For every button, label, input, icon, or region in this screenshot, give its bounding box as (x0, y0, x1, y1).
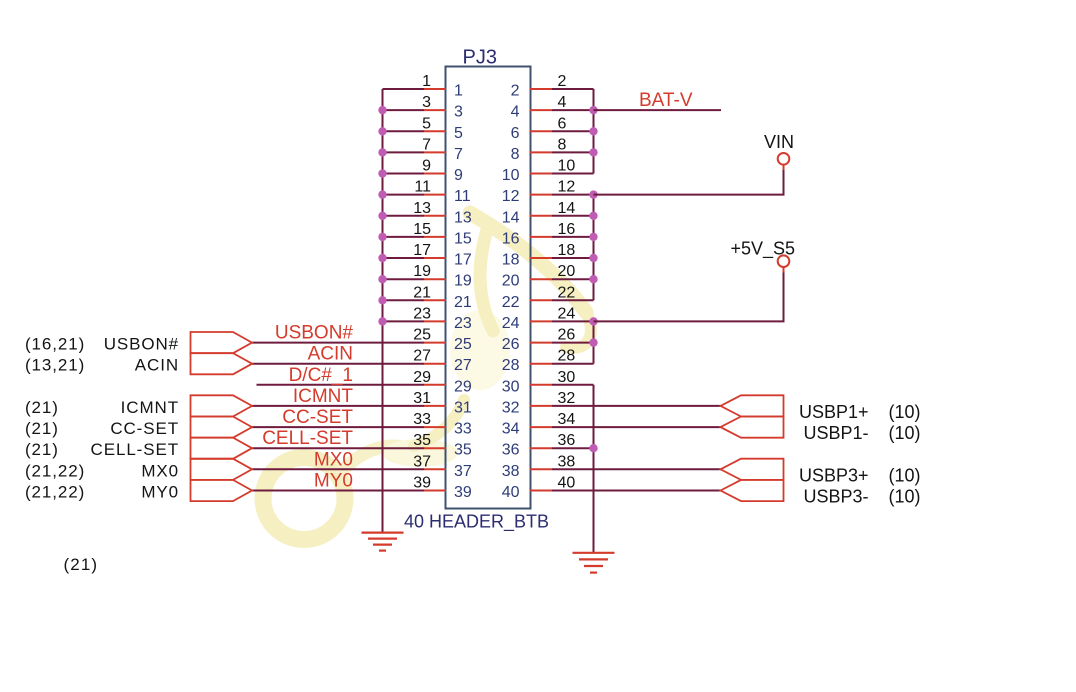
wire right bus GND segment (593, 385, 595, 553)
svg-text:34: 34 (502, 421, 520, 438)
svg-text:VIN: VIN (764, 132, 794, 152)
svg-text:PJ3: PJ3 (463, 47, 497, 69)
svg-text:(21): (21) (25, 440, 59, 459)
svg-text:40: 40 (502, 484, 520, 501)
svg-text:30: 30 (502, 378, 520, 395)
junction at pin 26 (589, 338, 597, 346)
svg-text:1: 1 (422, 73, 431, 90)
svg-text:ICMNT: ICMNT (293, 386, 354, 407)
pin 13 of PJ3 (413, 200, 472, 227)
pin 24 of PJ3 (502, 305, 576, 332)
pin 26 of PJ3 (502, 327, 576, 354)
pin 22 of PJ3 (502, 284, 576, 311)
svg-text:31: 31 (413, 390, 431, 407)
svg-text:32: 32 (502, 399, 520, 416)
svg-text:14: 14 (502, 209, 520, 226)
junction at pin 12 (589, 190, 597, 198)
svg-text:9: 9 (454, 167, 463, 184)
off-page connector USBP1+ (721, 395, 784, 416)
wire net BAT-V (594, 109, 722, 111)
pin 29 of PJ3 (413, 369, 472, 396)
pin 14 of PJ3 (502, 200, 576, 227)
off-page connector MY0 (191, 480, 253, 501)
pin 17 of PJ3 (413, 242, 472, 269)
junction at pin 3 (378, 106, 386, 114)
wire pin 38 to USB port (552, 468, 721, 470)
svg-text:2: 2 (558, 73, 567, 90)
wire pin 17 to GND bus (383, 257, 425, 259)
svg-text:25: 25 (454, 336, 472, 353)
wire pin 23 to GND bus (383, 320, 425, 322)
svg-text:13: 13 (454, 209, 472, 226)
pin 32 of PJ3 (502, 390, 576, 417)
svg-text:33: 33 (413, 411, 431, 428)
svg-text:40 HEADER_BTB: 40 HEADER_BTB (404, 512, 549, 533)
wire pin 40 to USB port (552, 490, 721, 492)
wire pin 15 to GND bus (383, 236, 425, 238)
wire pin 32 to USB port (552, 405, 721, 407)
wire pin 3 to GND bus (383, 109, 425, 111)
pin 10 of PJ3 (502, 158, 576, 185)
wire pin 7 to GND bus (383, 151, 425, 153)
pin 25 of PJ3 (413, 327, 472, 354)
pin 35 of PJ3 (413, 432, 472, 459)
svg-text:36: 36 (502, 442, 520, 459)
svg-text:CC-SET: CC-SET (282, 407, 353, 428)
wire pin 1 to GND bus (383, 88, 425, 90)
svg-text:36: 36 (558, 432, 576, 449)
svg-text:3: 3 (454, 104, 463, 121)
wire pin 22 to right bus (552, 299, 594, 301)
svg-text:38: 38 (502, 463, 520, 480)
svg-text:MX0: MX0 (314, 449, 353, 470)
wire net MY0 (252, 490, 424, 492)
wire pin 14 to right bus (552, 215, 594, 217)
wire right bus BAT-V segment (593, 89, 595, 174)
wire pin 13 to GND bus (383, 215, 425, 217)
svg-text:4: 4 (511, 104, 520, 121)
pin 3 of PJ3 (422, 94, 463, 121)
pin 12 of PJ3 (502, 179, 576, 206)
svg-text:18: 18 (558, 242, 576, 259)
svg-text:27: 27 (413, 348, 431, 365)
pin 40 of PJ3 (502, 475, 576, 502)
svg-text:9: 9 (422, 158, 431, 175)
junction at pin 16 (589, 233, 597, 241)
svg-text:ACIN: ACIN (135, 356, 179, 375)
svg-text:ACIN: ACIN (308, 344, 353, 365)
off-page connector USBP1- (721, 417, 784, 438)
svg-text:25: 25 (413, 327, 431, 344)
svg-text:14: 14 (558, 200, 576, 217)
wire net USBON# (252, 342, 424, 344)
pin 28 of PJ3 (502, 348, 576, 375)
svg-text:22: 22 (558, 284, 576, 301)
svg-text:MX0: MX0 (141, 461, 179, 480)
svg-text:13: 13 (413, 200, 431, 217)
junction at pin 6 (589, 127, 597, 135)
svg-text:MY0: MY0 (314, 471, 353, 492)
svg-text:24: 24 (502, 315, 520, 332)
svg-text:21: 21 (454, 294, 472, 311)
junction at pin 5 (378, 127, 386, 135)
junction at pin 23 (378, 317, 386, 325)
svg-text:CELL-SET: CELL-SET (91, 440, 179, 459)
wire pin 24 to right bus (552, 320, 594, 322)
svg-text:(10): (10) (889, 465, 921, 485)
wire net +5V_S5 (594, 273, 784, 322)
wire pin 28 to right bus (552, 363, 594, 365)
svg-text:39: 39 (454, 484, 472, 501)
junction at pin 18 (589, 254, 597, 262)
wire pin 16 to right bus (552, 236, 594, 238)
pin 15 of PJ3 (413, 221, 472, 248)
svg-text:7: 7 (422, 136, 431, 153)
svg-text:29: 29 (454, 378, 472, 395)
svg-text:5: 5 (422, 115, 431, 132)
svg-text:3: 3 (422, 94, 431, 111)
svg-text:29: 29 (413, 369, 431, 386)
svg-text:26: 26 (502, 336, 520, 353)
pin 7 of PJ3 (422, 136, 463, 163)
svg-text:10: 10 (502, 167, 520, 184)
svg-text:(10): (10) (889, 402, 921, 422)
pin 16 of PJ3 (502, 221, 576, 248)
junction at pin 20 (589, 275, 597, 283)
wire pin 4 to right bus (552, 109, 594, 111)
svg-text:17: 17 (413, 242, 431, 259)
svg-text:(21): (21) (25, 398, 59, 417)
pin 36 of PJ3 (502, 432, 576, 459)
pin 5 of PJ3 (422, 115, 463, 142)
svg-text:37: 37 (413, 453, 431, 470)
svg-text:26: 26 (558, 327, 576, 344)
svg-text:16: 16 (558, 221, 576, 238)
svg-text:12: 12 (502, 188, 520, 205)
svg-text:19: 19 (413, 263, 431, 280)
wire pin 21 to GND bus (383, 299, 425, 301)
svg-text:(21): (21) (25, 419, 59, 438)
wire net D/C#_1 (257, 384, 425, 386)
svg-text:8: 8 (511, 146, 520, 163)
pin 31 of PJ3 (413, 390, 472, 417)
pin 20 of PJ3 (502, 263, 576, 290)
svg-text:33: 33 (454, 421, 472, 438)
svg-text:CC-SET: CC-SET (110, 419, 179, 438)
svg-text:32: 32 (558, 390, 576, 407)
svg-text:1: 1 (454, 83, 463, 100)
wire net CELL-SET (252, 447, 424, 449)
pin 9 of PJ3 (422, 158, 463, 185)
wire pin 30 to right bus (552, 384, 594, 386)
wire pin 20 to right bus (552, 278, 594, 280)
wire pin 9 to GND bus (383, 173, 425, 175)
svg-text:6: 6 (511, 125, 520, 142)
wire pin 19 to GND bus (383, 278, 425, 280)
off-page connector USBON# (191, 332, 253, 353)
svg-text:7: 7 (454, 146, 463, 163)
svg-text:30: 30 (558, 369, 576, 386)
pin 4 of PJ3 (511, 94, 567, 121)
wire pin 26 to right bus (552, 342, 594, 344)
wire left GND bus (382, 89, 384, 533)
wire net ICMNT (252, 405, 424, 407)
svg-text:MY0: MY0 (141, 483, 179, 502)
ground right (573, 553, 615, 573)
pin 30 of PJ3 (502, 369, 576, 396)
svg-text:ICMNT: ICMNT (121, 398, 179, 417)
svg-text:16: 16 (502, 230, 520, 247)
pin 8 of PJ3 (511, 136, 567, 163)
svg-text:6: 6 (558, 115, 567, 132)
svg-text:37: 37 (454, 463, 472, 480)
svg-text:USBON#: USBON# (275, 323, 354, 344)
wire net MX0 (252, 468, 424, 470)
junction at pin 9 (378, 169, 386, 177)
junction at pin 15 (378, 233, 386, 241)
svg-text:20: 20 (502, 273, 520, 290)
junction at pin 14 (589, 212, 597, 220)
junction at pin 7 (378, 148, 386, 156)
off-page connector CC-SET (191, 417, 253, 438)
svg-text:24: 24 (558, 305, 576, 322)
wire pin 18 to right bus (552, 257, 594, 259)
svg-text:(10): (10) (889, 423, 921, 443)
wire net ACIN (252, 363, 424, 365)
junction at pin 19 (378, 275, 386, 283)
svg-text:34: 34 (558, 411, 576, 428)
svg-text:40: 40 (558, 475, 576, 492)
wire pin 2 to right bus (552, 88, 594, 90)
wire pin 12 to right bus (552, 194, 594, 196)
junction at pin 13 (378, 212, 386, 220)
svg-text:4: 4 (558, 94, 567, 111)
svg-text:17: 17 (454, 252, 472, 269)
off-page connector MX0 (191, 459, 253, 480)
off-page connector ACIN (191, 353, 253, 374)
svg-text:39: 39 (413, 475, 431, 492)
svg-text:35: 35 (413, 432, 431, 449)
svg-text:(10): (10) (889, 487, 921, 507)
svg-text:22: 22 (502, 294, 520, 311)
svg-text:USBP1-: USBP1- (803, 423, 868, 443)
power terminal VIN (764, 132, 794, 170)
power terminal +5V_S5 (730, 239, 795, 273)
wire pin 6 to right bus (552, 130, 594, 132)
junction at pin 4 (589, 106, 597, 114)
svg-text:35: 35 (454, 442, 472, 459)
wire net VIN (594, 170, 784, 195)
off-page connector USBP3- (721, 480, 784, 501)
svg-text:2: 2 (511, 83, 520, 100)
svg-text:15: 15 (413, 221, 431, 238)
pin 18 of PJ3 (502, 242, 576, 269)
pin 1 of PJ3 (422, 73, 463, 100)
pin 11 of PJ3 (414, 179, 470, 206)
svg-text:BAT-V: BAT-V (639, 90, 693, 111)
wire right bus VIN segment (593, 195, 595, 301)
svg-text:28: 28 (558, 348, 576, 365)
junction at pin 36 (589, 444, 597, 452)
svg-text:+5V_S5: +5V_S5 (730, 239, 795, 260)
svg-text:USBP3-: USBP3- (803, 487, 868, 507)
pin 34 of PJ3 (502, 411, 576, 438)
svg-text:8: 8 (558, 136, 567, 153)
pin 37 of PJ3 (413, 453, 472, 480)
svg-text:19: 19 (454, 273, 472, 290)
svg-text:12: 12 (558, 179, 576, 196)
svg-text:(21,22): (21,22) (25, 461, 85, 480)
svg-text:(13,21): (13,21) (25, 356, 85, 375)
junction at pin 17 (378, 254, 386, 262)
off-page connector ICMNT (191, 395, 253, 416)
svg-text:5: 5 (454, 125, 463, 142)
svg-text:USBP1+: USBP1+ (799, 402, 869, 422)
pin 21 of PJ3 (413, 284, 472, 311)
svg-text:31: 31 (454, 399, 472, 416)
svg-text:(16,21): (16,21) (25, 335, 85, 354)
junction at pin 24 (589, 317, 597, 325)
wire net CC-SET (252, 426, 424, 428)
ground left (362, 533, 404, 551)
svg-text:23: 23 (413, 305, 431, 322)
svg-text:21: 21 (413, 284, 431, 301)
wire pin 5 to GND bus (383, 130, 425, 132)
svg-text:11: 11 (454, 188, 471, 205)
svg-text:USBP3+: USBP3+ (799, 465, 869, 485)
svg-text:USBON#: USBON# (104, 335, 179, 354)
svg-text:11: 11 (414, 179, 431, 196)
pin 27 of PJ3 (413, 348, 472, 375)
connector PJ3 body (446, 67, 531, 509)
svg-text:CELL-SET: CELL-SET (262, 428, 353, 449)
svg-text:(21,22): (21,22) (25, 483, 85, 502)
pin 2 of PJ3 (511, 73, 567, 100)
svg-text:(21): (21) (64, 555, 99, 574)
pin 23 of PJ3 (413, 305, 472, 332)
svg-text:28: 28 (502, 357, 520, 374)
junction at pin 8 (589, 148, 597, 156)
off-page connector CELL-SET (191, 438, 253, 459)
wire pin 8 to right bus (552, 151, 594, 153)
junction at pin 21 (378, 296, 386, 304)
pin 33 of PJ3 (413, 411, 472, 438)
wire pin 36 to right bus (552, 447, 594, 449)
svg-text:18: 18 (502, 252, 520, 269)
pin 38 of PJ3 (502, 453, 576, 480)
svg-text:38: 38 (558, 453, 576, 470)
svg-text:D/C#_1: D/C#_1 (289, 365, 353, 386)
svg-text:15: 15 (454, 230, 472, 247)
pin 6 of PJ3 (511, 115, 567, 142)
wire pin 34 to USB port (552, 426, 721, 428)
svg-text:10: 10 (558, 158, 576, 175)
pin 19 of PJ3 (413, 263, 472, 290)
svg-text:20: 20 (558, 263, 576, 280)
wire pin 10 to right bus (552, 173, 594, 175)
off-page connector USBP3+ (721, 459, 784, 480)
svg-text:27: 27 (454, 357, 472, 374)
wire right bus +5V_S5 segment (593, 321, 595, 363)
wire pin 11 to GND bus (383, 194, 425, 196)
junction at pin 11 (378, 190, 386, 198)
svg-text:23: 23 (454, 315, 472, 332)
pin 39 of PJ3 (413, 475, 472, 502)
